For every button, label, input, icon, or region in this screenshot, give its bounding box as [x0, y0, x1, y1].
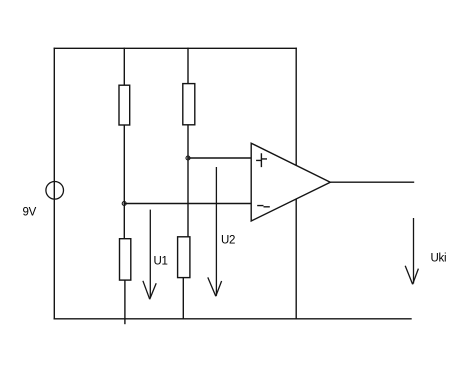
wire bottom rail — [54, 318, 411, 320]
op-amp minus pin symbol — [257, 206, 270, 207]
op-amp plus pin symbol — [256, 153, 267, 167]
node B (non-inverting junction) — [186, 156, 190, 160]
wire right vertical — [295, 48, 297, 319]
arrow Uki — [405, 218, 418, 284]
arrow U2 — [208, 167, 222, 296]
svg-text:9V: 9V — [23, 207, 37, 219]
wire non-inverting input (node B to op-amp) — [188, 157, 251, 159]
node A (inverting junction) — [122, 202, 126, 206]
wire chain2 bottom — [182, 278, 184, 319]
wire left vertical — [53, 48, 55, 319]
arrow U1 — [143, 210, 156, 300]
wire chain1 middle — [123, 125, 125, 239]
voltage source V1 9V — [46, 182, 64, 200]
wire inverting input (node A to op-amp) — [124, 203, 251, 205]
op-amp triangle — [251, 143, 330, 221]
resistor R4 — [178, 237, 190, 278]
wire op-amp output — [330, 181, 413, 183]
wire chain1 bottom — [124, 280, 126, 324]
wire chain2 middle — [187, 125, 189, 237]
wire chain1 top — [123, 48, 125, 85]
wire top rail — [54, 47, 296, 49]
svg-text:Uki: Uki — [431, 253, 447, 265]
resistor R3 — [120, 239, 131, 280]
resistor R1 — [119, 85, 130, 125]
wire chain2 top — [187, 48, 189, 84]
svg-text:U1: U1 — [154, 256, 168, 268]
svg-text:U2: U2 — [221, 234, 235, 246]
resistor R2 — [183, 84, 195, 125]
